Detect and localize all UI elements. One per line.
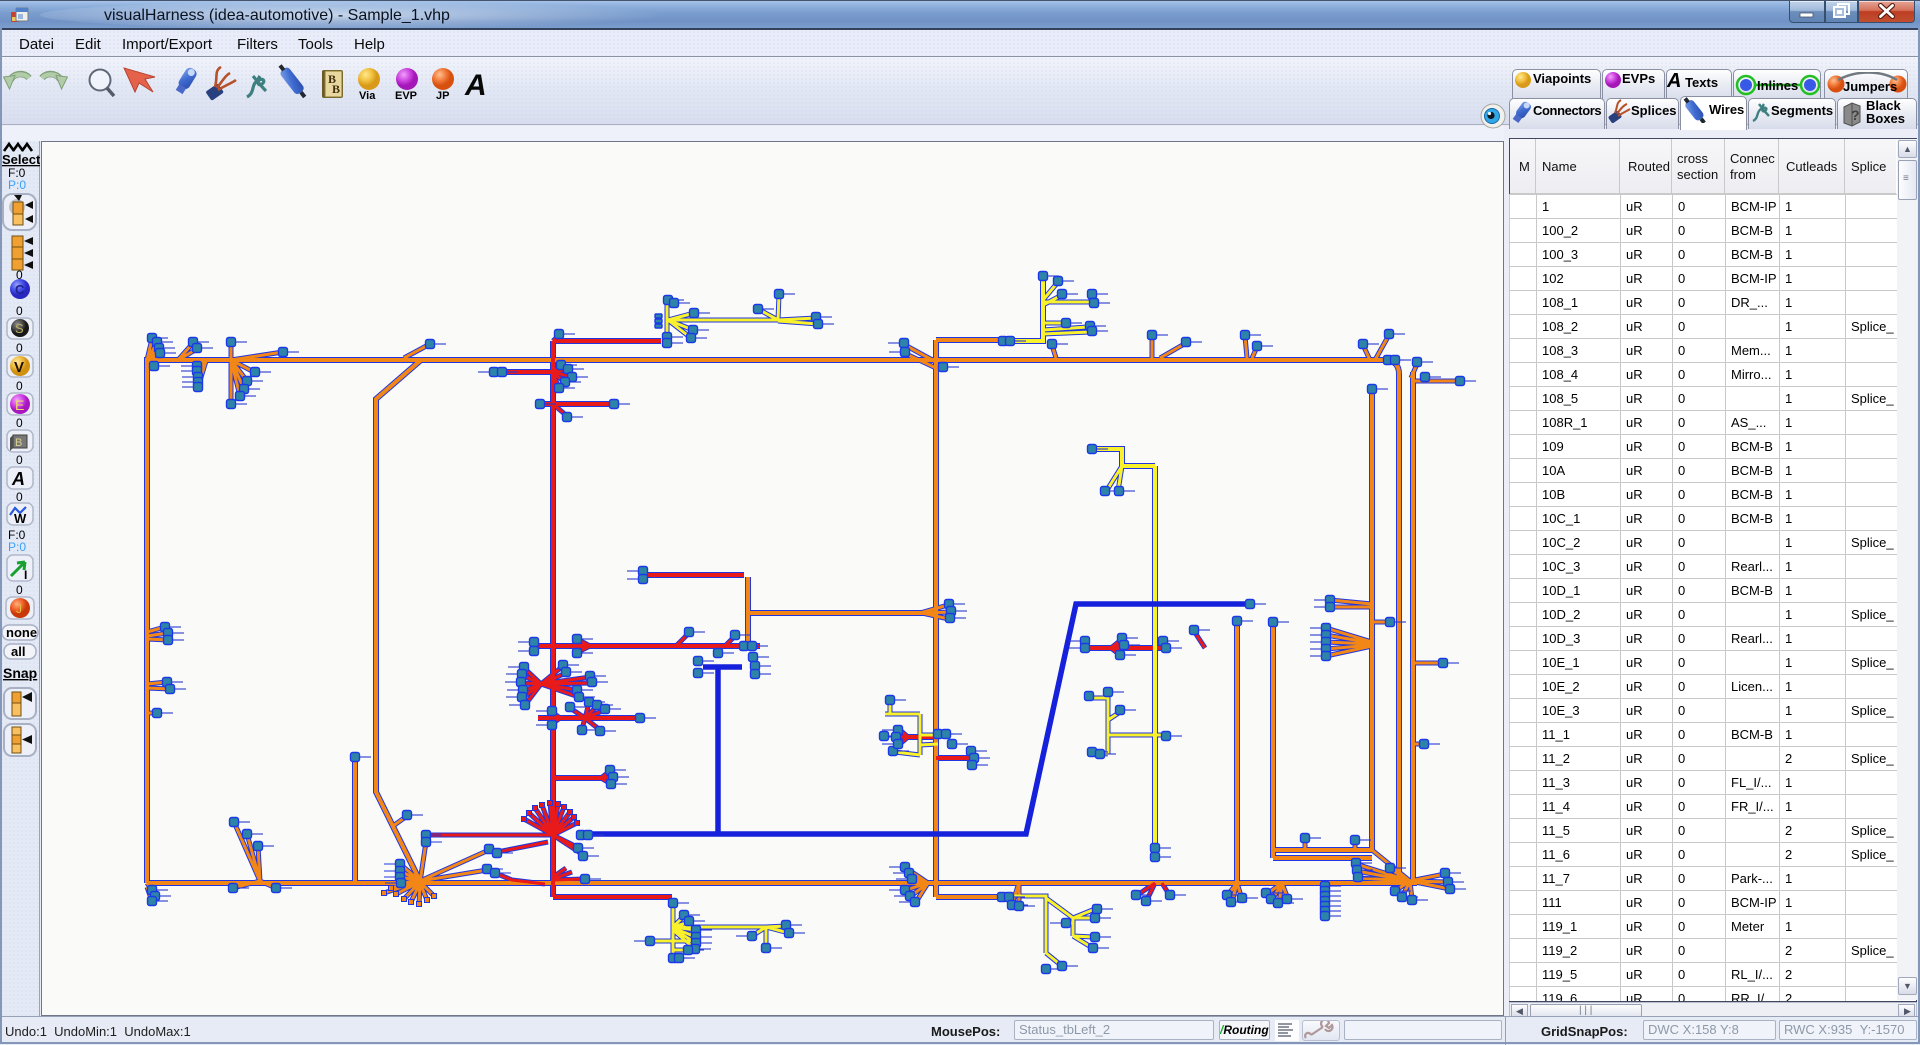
svg-text:Via: Via [359, 90, 376, 102]
svg-text:?: ? [1851, 107, 1860, 123]
svg-text:E: E [15, 397, 24, 413]
svg-text:EVP: EVP [395, 90, 417, 102]
svg-text:P:0: P:0 [8, 540, 26, 554]
svg-text:A: A [11, 469, 25, 489]
svg-text:B: B [15, 437, 22, 449]
svg-text:Inlines: Inlines [1757, 78, 1798, 93]
svg-text:Snap: Snap [3, 665, 37, 681]
svg-text:all: all [11, 644, 25, 659]
wire: red harness branches [499, 341, 1162, 897]
svg-text:0: 0 [16, 304, 23, 318]
svg-text:Select: Select [2, 152, 40, 167]
svg-text:Jumpers: Jumpers [1843, 79, 1897, 94]
wire stubs: orange fan-outs [147, 335, 1460, 918]
svg-text:0: 0 [16, 583, 23, 597]
svg-text:0: 0 [16, 453, 23, 467]
svg-text:0: 0 [16, 341, 23, 355]
svg-text:0: 0 [16, 416, 23, 430]
svg-text:0: 0 [16, 379, 23, 393]
svg-text:B: B [332, 82, 340, 96]
wire outlines (blue) [147, 276, 1417, 897]
svg-text:none: none [6, 625, 37, 640]
wire stubs: red fan-outs [427, 335, 1205, 902]
svg-text:A: A [464, 69, 487, 102]
svg-text:V: V [14, 359, 24, 376]
svg-text:S: S [15, 321, 24, 336]
eye icon [1480, 101, 1508, 131]
connector leads [157, 276, 1476, 969]
svg-text:J: J [16, 602, 22, 616]
svg-text:W: W [14, 511, 27, 526]
svg-text:I: I [24, 568, 27, 582]
wire: orange trunk harness [147, 340, 1417, 897]
svg-text:JP: JP [436, 90, 449, 102]
wire: yellow harness branches [1012, 276, 1155, 857]
connectors (teal nodes) [148, 272, 1465, 974]
wire stubs: yellow fan-outs [650, 282, 1163, 966]
svg-text:P:0: P:0 [8, 178, 26, 192]
svg-text:C: C [15, 282, 25, 297]
svg-text:0: 0 [16, 490, 23, 504]
wire: blue routed wire [576, 604, 1250, 834]
